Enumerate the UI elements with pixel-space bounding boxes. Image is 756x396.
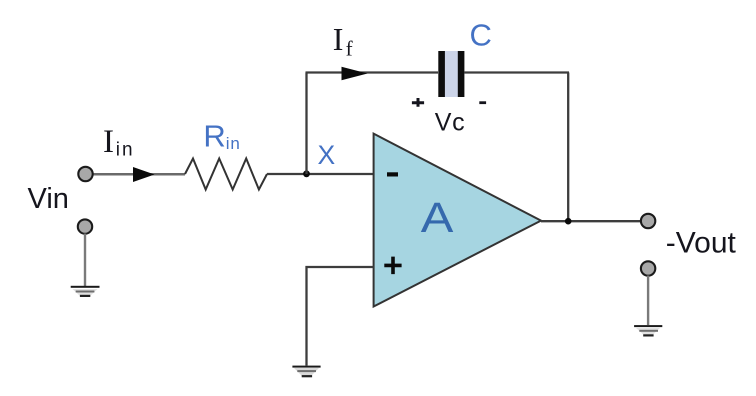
node X junction dot [303, 170, 310, 177]
output terminal circle [641, 214, 655, 228]
capacitor C right plate [458, 51, 465, 97]
op-amp non-inverting input plus mark [384, 257, 401, 275]
svg-text:-Vout: -Vout [666, 226, 737, 259]
ground symbol at non-inverting input [292, 366, 320, 378]
capacitor C dielectric fill [443, 51, 460, 97]
wire -Vout terminal to ground [647, 276, 649, 326]
svg-text:f: f [346, 36, 353, 60]
current arrow If [342, 67, 368, 80]
ground symbol below -Vout [634, 325, 662, 336]
terminal circle for Vin reference [78, 219, 92, 233]
svg-text:in: in [116, 140, 135, 161]
resistor Rin [185, 159, 267, 190]
svg-text:Vc: Vc [435, 108, 466, 136]
ground symbol below Vin [71, 286, 100, 297]
wire resistor to op-amp inverting input [267, 173, 374, 175]
output junction dot [565, 218, 572, 225]
wire feedback top horizontal to capacitor [306, 71, 439, 73]
wire capacitor to right corner [465, 71, 570, 73]
wire op-amp output [541, 220, 642, 222]
polarity plus of Vc [412, 98, 424, 107]
wire input from Vin terminal to resistor [92, 173, 185, 176]
svg-text:in: in [226, 134, 241, 153]
wire Vin terminal to ground [84, 234, 86, 287]
current arrow Iin [133, 167, 155, 182]
svg-text:I: I [103, 124, 114, 160]
svg-text:C: C [470, 18, 492, 53]
terminal circle for -Vout reference [641, 261, 655, 275]
wire right vertical down to output [567, 73, 569, 222]
svg-text:Vin: Vin [28, 183, 69, 215]
wire feedback vertical from node X [305, 73, 307, 175]
input terminal circle Vin [78, 167, 92, 181]
svg-text:R: R [203, 119, 225, 154]
capacitor C left plate [438, 51, 445, 97]
svg-text:X: X [318, 140, 336, 170]
svg-text:I: I [333, 21, 344, 57]
polarity minus of Vc [479, 101, 486, 104]
op-amp inverting input minus mark [387, 172, 398, 176]
op-amp U1 body [374, 134, 541, 307]
wire non-inverting input to ground [307, 267, 374, 366]
svg-text:A: A [421, 194, 454, 241]
